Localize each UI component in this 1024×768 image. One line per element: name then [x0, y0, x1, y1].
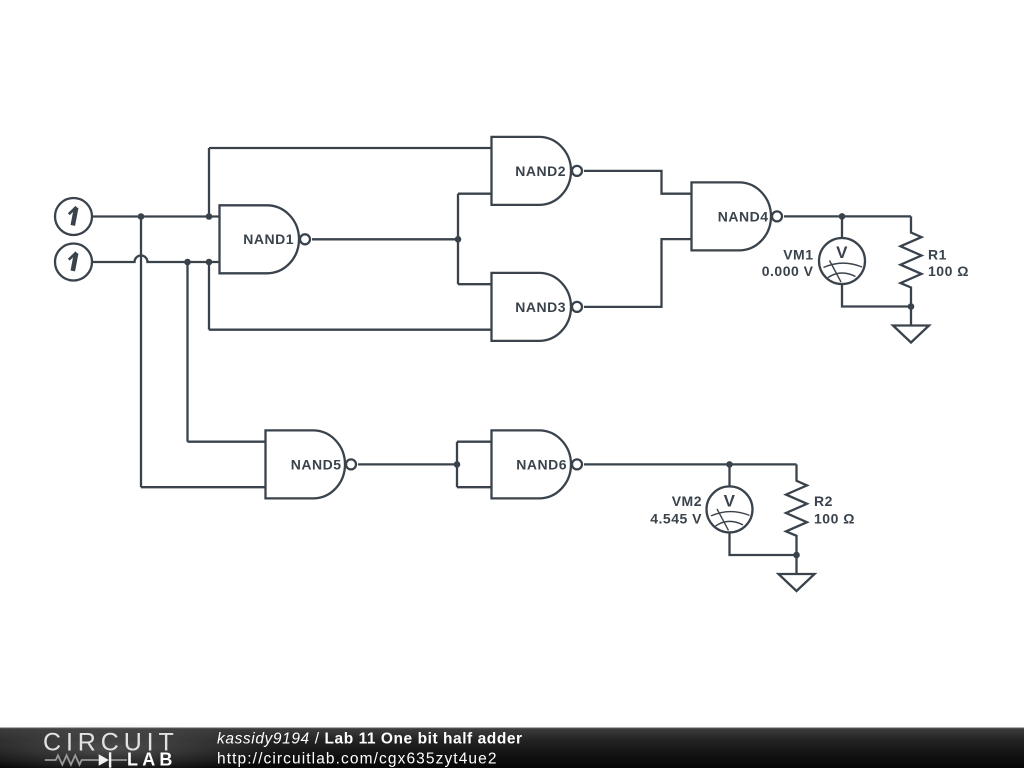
svg-text:R1: R1 — [928, 247, 947, 263]
svg-text:NAND6: NAND6 — [516, 456, 567, 472]
svg-text:NAND2: NAND2 — [515, 163, 566, 179]
svg-text:100 Ω: 100 Ω — [814, 511, 855, 527]
svg-text:0.000 V: 0.000 V — [762, 263, 814, 279]
svg-text:VM2: VM2 — [672, 493, 702, 509]
svg-text:V: V — [724, 491, 736, 510]
svg-text:VM1: VM1 — [783, 247, 813, 263]
svg-text:http://circuitlab.com/cgx635zy: http://circuitlab.com/cgx635zyt4ue2 — [217, 751, 498, 768]
svg-text:kassidy9194 / Lab 11 One bit h: kassidy9194 / Lab 11 One bit half adder — [217, 731, 523, 748]
svg-text:NAND3: NAND3 — [515, 299, 566, 315]
svg-text:4.545 V: 4.545 V — [650, 511, 702, 527]
svg-text:NAND4: NAND4 — [718, 208, 769, 224]
svg-text:NAND5: NAND5 — [291, 456, 342, 472]
svg-text:V: V — [836, 243, 848, 262]
svg-text:100 Ω: 100 Ω — [928, 263, 969, 279]
svg-text:LAB: LAB — [127, 749, 177, 768]
svg-text:NAND1: NAND1 — [243, 231, 294, 247]
svg-text:R2: R2 — [814, 493, 833, 509]
